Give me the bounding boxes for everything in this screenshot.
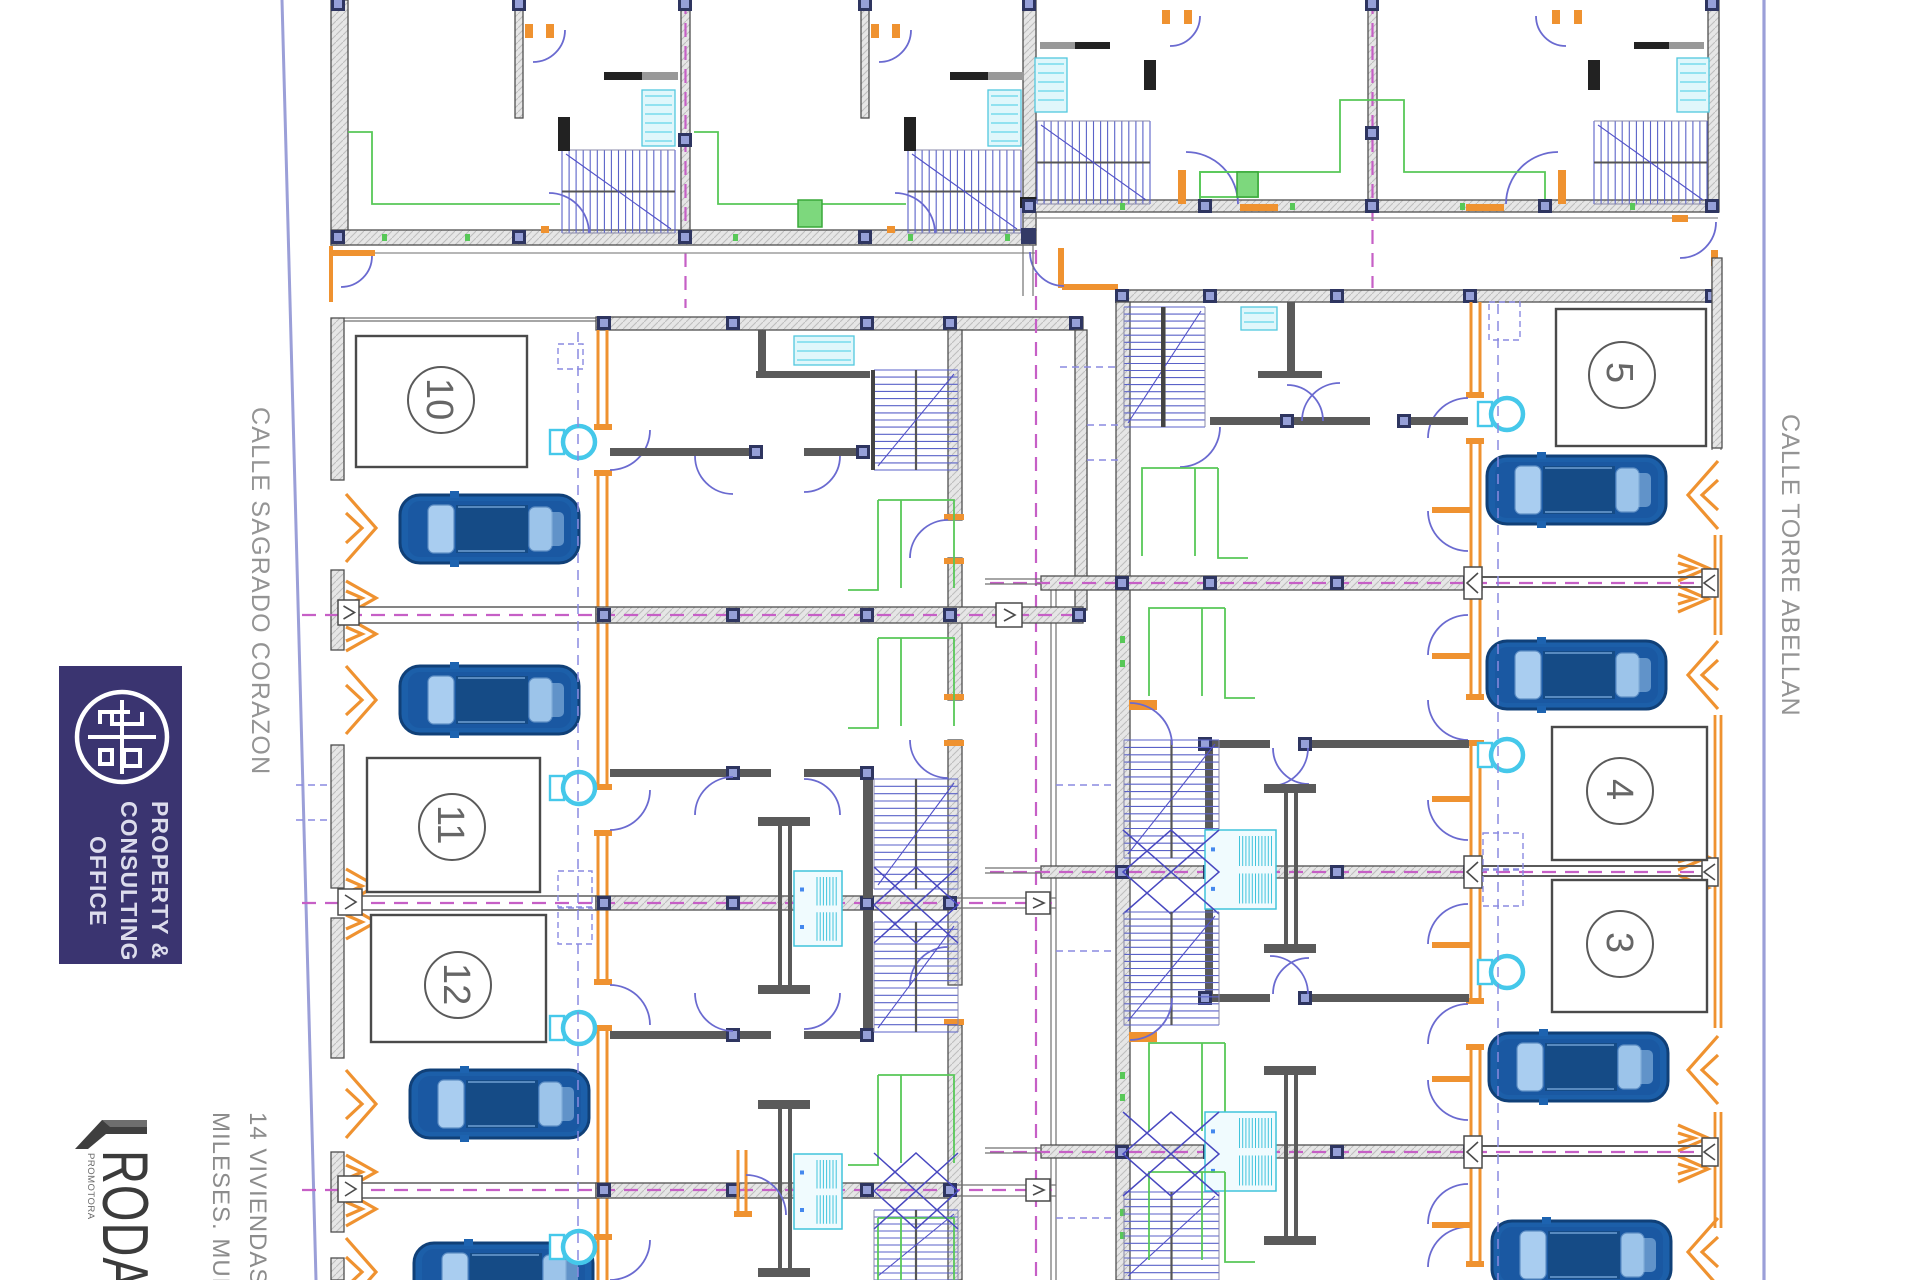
green circuit right top band <box>1200 100 1545 200</box>
plot box 10 <box>356 336 527 467</box>
plot box 12 <box>371 915 546 1042</box>
wall top bar unit10 <box>596 317 1083 330</box>
front door arcs straddling bar y1152 <box>1428 1076 1470 1228</box>
green box right top band <box>1200 172 1258 197</box>
door arc unit13 front <box>610 1240 650 1280</box>
garage front wall right block (orange) <box>1471 302 1480 1267</box>
hall arcs unit4 <box>1270 748 1309 786</box>
patio green unit11 <box>848 638 954 728</box>
stairs unit4 <box>1124 740 1219 858</box>
driveway chevron unit5 <box>1688 461 1718 529</box>
wall right boundary gray <box>1712 258 1722 448</box>
interior black wall bits house B <box>904 72 1024 151</box>
door arc unit5 front <box>1428 398 1468 438</box>
street boundary line Calle Torre Abellan <box>1762 0 1765 1280</box>
driveway chevron unit2 <box>1688 1218 1718 1280</box>
logo RODA promotora <box>75 1120 160 1280</box>
node party wall C/D mid <box>1365 126 1379 140</box>
door arc unit12 front <box>610 985 650 1025</box>
patio green unit2 <box>1149 1172 1255 1262</box>
room walls unit4 <box>1205 740 1469 1002</box>
wall right edge upper <box>1712 258 1721 450</box>
stair X arrows 3/2 <box>1123 1112 1219 1196</box>
svg-text:MILESES. MURCIA: MILESES. MURCIA <box>207 1112 234 1280</box>
patio green unit4 <box>1149 608 1255 698</box>
party wall units 11/12 <box>344 896 1056 910</box>
party wall 11/12 section boxes <box>338 889 1050 915</box>
rear entry unit3 <box>1129 998 1172 1042</box>
shower tray house A <box>642 90 675 146</box>
rear door arc unit11 <box>910 740 948 778</box>
boundary wall left y1152 <box>331 1152 344 1232</box>
svg-text:OFFICE: OFFICE <box>85 836 111 926</box>
shaft dashed units 4/3 <box>1483 833 1523 906</box>
room walls unit12 <box>610 910 873 1039</box>
room wall nodes unit3 <box>1198 991 1312 1005</box>
rear door jambs left block <box>944 514 964 1025</box>
shaft dashed unit11/12 <box>558 871 592 944</box>
plot box 4 <box>1552 727 1707 860</box>
door jambs+arc house B <box>871 24 911 62</box>
wall bottom bar left top band <box>331 230 1036 245</box>
room wall nodes unit10 <box>749 445 870 459</box>
party wall 5/4 section boxes <box>1464 567 1718 599</box>
stairs unit12 <box>874 922 958 1032</box>
hall arcs unit5 <box>1180 383 1340 467</box>
stair mid wall unit5 <box>1161 307 1165 427</box>
room walls unit11 <box>610 769 873 898</box>
wall left outer (top band) <box>331 0 348 245</box>
right boundary wall orange <box>1715 535 1721 1228</box>
toilet unit13 <box>550 1231 595 1263</box>
svg-text:CALLE SAGRADO CORAZON: CALLE SAGRADO CORAZON <box>246 407 274 775</box>
kitchen cyan unit10 <box>794 336 854 365</box>
door arc house A landing <box>541 193 589 233</box>
datum dashes left margin <box>296 785 330 820</box>
stairs unit10 <box>874 370 958 470</box>
svg-text:RODA: RODA <box>88 1150 160 1280</box>
boundary wall left y318 <box>331 318 344 480</box>
interior black wall bits house A <box>558 72 678 151</box>
shaft dashed unit5 <box>1489 302 1520 340</box>
driveway chevron unit13 <box>346 1238 376 1280</box>
stairs house B (top band) <box>908 150 1021 233</box>
party wall 3/2 magenta <box>990 1151 1712 1153</box>
party wall units 12/13 <box>344 1183 1056 1198</box>
party wall 4/3 nodes <box>1115 865 1477 879</box>
cyan core box units 4/3 <box>1205 830 1276 909</box>
door arc unit10 front <box>610 430 650 470</box>
porch door arc left block <box>329 246 375 302</box>
driveway chevron unit12 <box>346 1070 376 1138</box>
svg-text:CALLE TORRE ABELLAN: CALLE TORRE ABELLAN <box>1776 414 1804 716</box>
room wall nodes unit11 <box>726 766 874 780</box>
plot box 3 <box>1552 880 1707 1012</box>
wall partial house A <box>515 0 523 118</box>
room walls unit5 <box>1210 302 1468 425</box>
pillar I-beam units 4/3 <box>1264 784 1316 953</box>
svg-text:PROPERTY &: PROPERTY & <box>147 801 173 960</box>
svg-text:11: 11 <box>429 805 471 844</box>
toilet unit10 <box>550 426 595 458</box>
boundary wall left y1258 <box>331 1258 344 1280</box>
rear wall left block y330 <box>948 330 962 520</box>
wall right outer top band <box>1708 0 1719 212</box>
party wall 5/4 magenta <box>990 582 1712 584</box>
party wall 5/4 nodes <box>1115 576 1477 590</box>
door arc house B landing <box>887 193 935 233</box>
door jambs+arc house D <box>1536 10 1582 46</box>
car unit11 parking <box>400 662 579 738</box>
porch door arc right block <box>1672 215 1718 266</box>
black bits house D <box>1588 42 1704 90</box>
section chevrons 4/3 <box>1678 844 1708 901</box>
parking axis right block <box>1497 304 1499 1280</box>
toilet unit12 <box>550 1012 595 1044</box>
patio boundary units 11-12 <box>1051 578 1056 1280</box>
car unit13 parking <box>414 1239 593 1280</box>
party wall top band right block <box>1368 0 1377 200</box>
party wall 4/3 magenta <box>990 871 1712 873</box>
boundary wall left y570 <box>331 570 344 650</box>
svg-text:4: 4 <box>1598 779 1640 800</box>
section chevrons 3/2 <box>1678 1125 1708 1182</box>
green ticks bottom bar right <box>1120 203 1635 210</box>
party wall 10/11 nodes <box>597 608 1086 622</box>
rear entry unit4 <box>1129 700 1172 745</box>
rear wall left block y1025 <box>948 1025 962 1280</box>
stair wall unit10 <box>871 370 875 470</box>
toilet unit4 <box>1478 739 1523 771</box>
rear wall left block y740 <box>948 740 962 985</box>
party wall 3/2 thin ext <box>1482 1146 1714 1156</box>
front door arcs straddling bar y583 <box>1428 507 1470 659</box>
green circuit house A <box>348 132 560 204</box>
hall arcs unit10 <box>695 456 840 494</box>
shower tray house B <box>988 90 1021 146</box>
hall arcs unit11 <box>695 777 840 815</box>
porch door block junction <box>1030 248 1118 290</box>
party wall 3/2 thin left <box>985 1148 1041 1153</box>
driveway chevron unit3 <box>1688 1036 1718 1104</box>
garage front wall jambs right <box>1466 392 1484 1267</box>
hall wall unit13 (orange) <box>734 1150 786 1217</box>
door jambs+arc house A <box>525 24 565 62</box>
svg-text:14 VIVIENDAS ADOSADAS: 14 VIVIENDAS ADOSADAS <box>244 1112 271 1280</box>
black bits house C <box>1040 42 1156 90</box>
stair X arrows 12/13 <box>874 1153 958 1229</box>
room wall nodes unit12 <box>726 1028 874 1042</box>
wall partial house B <box>861 0 869 118</box>
stairs unit2 <box>1124 1192 1219 1280</box>
pillar I-beam units 11/12 <box>758 817 810 994</box>
driveway chevron unit4 <box>1688 641 1718 709</box>
patio green unit3 <box>1149 1043 1255 1133</box>
svg-text:12: 12 <box>435 963 477 1005</box>
party wall 10/11 section boxes <box>338 600 1022 627</box>
party wall 5/4 thin left <box>985 579 1041 584</box>
pillar I-beam units 2/3 <box>1264 1066 1316 1245</box>
car unit4 parking <box>1487 637 1666 713</box>
door arc unit4 front <box>1428 700 1468 740</box>
datum dashes gap <box>1056 367 1118 1218</box>
shower tray house C <box>1035 58 1067 112</box>
toilet unit11 <box>550 772 595 804</box>
stairs house D <box>1594 121 1707 204</box>
room walls unit10 <box>610 330 870 456</box>
car unit3 parking <box>1489 1029 1668 1105</box>
party wall 3/2 nodes <box>1115 1145 1477 1159</box>
door arc house C landing <box>1178 152 1278 211</box>
door arc unit2 front <box>1428 1227 1468 1267</box>
front door arcs straddling bar y872 <box>1428 796 1470 948</box>
wall bottom bar right top band <box>1023 200 1718 212</box>
party wall axis magenta x1372 <box>1371 0 1373 288</box>
corner blocks block junction <box>1020 197 1037 244</box>
stair X arrows 4/3 <box>1123 830 1219 914</box>
stairs house C <box>1037 121 1150 204</box>
wall top bar unit5 <box>1118 290 1718 302</box>
party wall 4/3 section boxes <box>1464 856 1718 888</box>
wall right block left side <box>1116 302 1130 1280</box>
party wall 12/13 magenta <box>302 1189 1056 1191</box>
face line under left top-band bar <box>331 252 1036 254</box>
pillar I-beam units 12/13 <box>758 1100 810 1277</box>
node party wall A/B mid <box>678 133 692 147</box>
nodes bottom bar left <box>331 230 1036 244</box>
patio wall unit10 (x1075) <box>1075 330 1087 610</box>
parking axis left block <box>577 332 579 1280</box>
party wall 10/11 magenta <box>302 614 1083 616</box>
section chevrons 12/13 <box>346 1155 376 1226</box>
car unit10 parking <box>400 491 579 567</box>
driveway chevron unit10 <box>346 494 376 562</box>
boundary wall left y745 <box>331 745 344 888</box>
cyan core box units 2/3 <box>1205 1112 1276 1191</box>
cyan core box units 12/13 <box>794 1154 842 1229</box>
party wall units 5/4 <box>1041 576 1482 590</box>
car unit5 parking <box>1487 452 1666 528</box>
toilet unit3 <box>1478 956 1523 988</box>
section chevrons 5/4 <box>1678 555 1708 612</box>
porch line left (plot strip top) <box>344 318 596 321</box>
stairs unit5 <box>1124 307 1205 427</box>
rear wall left block y558 <box>948 558 962 700</box>
party wall axis magenta x686 <box>684 0 686 308</box>
hall arcs unit12 <box>695 993 840 1031</box>
nodes top edge right <box>1365 0 1719 11</box>
rear door arc unit12 <box>910 947 948 985</box>
garage front wall jambs <box>594 424 612 1240</box>
nodes top bar unit5 <box>1115 289 1719 303</box>
green circuit house B <box>694 132 906 204</box>
party wall 12/13 nodes <box>597 1183 957 1197</box>
party wall units 10/11 <box>344 607 1083 623</box>
toilet unit5 <box>1478 398 1523 430</box>
room wall nodes unit4 <box>1198 737 1312 751</box>
stairs unit13 <box>874 1210 958 1280</box>
door arc house D landing <box>1466 152 1566 211</box>
door arc unit11 front <box>610 790 650 830</box>
party wall units 3/2 <box>1041 1145 1482 1158</box>
car unit2 parking <box>1492 1217 1671 1280</box>
rear door arc unit10 <box>910 520 948 558</box>
plot box 5 <box>1556 309 1706 446</box>
patio green unit13 <box>848 1218 954 1280</box>
plot box 11 <box>367 758 540 892</box>
svg-text:CONSULTING: CONSULTING <box>116 801 142 961</box>
kitchen cyan unit5 <box>1241 307 1277 330</box>
boundary wall left y918 <box>331 918 344 1058</box>
party wall top band left block <box>681 0 690 230</box>
svg-text:3: 3 <box>1598 932 1640 953</box>
stairs unit11 <box>874 779 958 889</box>
green ticks right block wall <box>1120 636 1125 1239</box>
stair X arrows 11/12 <box>874 867 958 943</box>
party wall 4/3 thin ext <box>1482 866 1714 876</box>
logo Property & Consulting Office <box>59 666 182 964</box>
room walls unit3 <box>1205 994 1469 1002</box>
nodes top edge left <box>331 0 1036 11</box>
driveway chevron unit11 <box>346 666 376 734</box>
svg-text:5: 5 <box>1598 362 1640 383</box>
party wall 5/4 thin ext <box>1482 577 1714 587</box>
party wall 12/13 section boxes <box>338 1176 1050 1202</box>
street boundary line Calle Sagrado Corazon <box>282 0 316 1280</box>
patio green unit10 <box>848 500 954 590</box>
svg-text:10: 10 <box>418 378 460 420</box>
wall right of top band left block <box>1023 0 1036 230</box>
garage front wall left block (orange) <box>598 330 607 1280</box>
patio green unit12 <box>848 1075 954 1165</box>
green box left top band <box>798 200 822 227</box>
stairs unit3 <box>1124 912 1219 1025</box>
gap axis magenta x1036 <box>1035 250 1037 1280</box>
door arc unit3 front <box>1428 1004 1468 1044</box>
party wall 4/3 thin left <box>985 868 1041 873</box>
party wall 11/12 nodes <box>597 896 957 910</box>
shaft dashed unit10 <box>558 344 583 369</box>
section chevrons 10/11 <box>346 581 376 651</box>
party wall units 4/3 <box>1041 866 1482 878</box>
section chevrons 11/12 <box>346 869 376 939</box>
green ticks bottom bar left <box>382 234 1010 241</box>
stairs house A (top band) <box>562 150 675 233</box>
nodes bottom bar right <box>1022 199 1719 213</box>
nodes top bar unit10 <box>597 316 1083 330</box>
face line under right top-band bar <box>1023 217 1718 219</box>
porch walls left block edge <box>1023 245 1033 296</box>
party wall 3/2 section boxes <box>1464 1136 1718 1168</box>
cyan core box units 11/12 <box>794 871 842 946</box>
svg-text:PROMOTORA: PROMOTORA <box>85 1153 96 1220</box>
shower tray house D <box>1677 58 1709 112</box>
hall arcs unit3 <box>1270 956 1309 994</box>
party wall 11/12 magenta <box>302 902 1056 904</box>
door jambs+arc house C <box>1162 10 1200 46</box>
car unit12 parking <box>410 1066 589 1142</box>
room wall nodes unit5 <box>1280 414 1411 428</box>
patio green unit5 <box>1142 468 1248 558</box>
